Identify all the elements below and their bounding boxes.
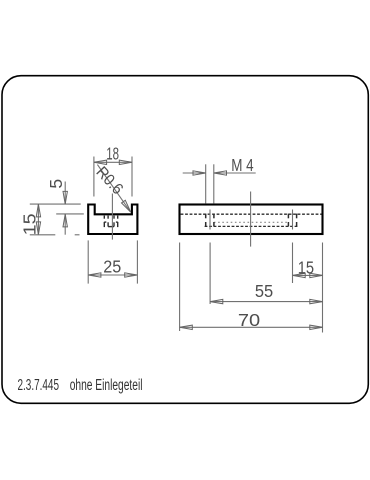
dimension 5 line — [64, 182, 66, 235]
dimension 70 extension line (left edge) — [179, 243, 181, 332]
dimension 5 extension lines — [30, 204, 84, 214]
dimension 18 extension lines — [94, 157, 132, 197]
right view hidden slot line (grey) — [214, 221, 289, 223]
dimension 55 extension line (left hole) — [209, 243, 211, 305]
leader R0.6 line — [97, 165, 130, 212]
dimension 15 bottom extension line — [30, 234, 80, 236]
dimension 18 arrows — [94, 160, 132, 164]
svg-text:ohne Einlegeteil: ohne Einlegeteil — [70, 377, 143, 394]
left view vertical centerline — [111, 194, 113, 240]
left view part outline (U-channel cross-section) — [88, 205, 137, 235]
right hole hidden walls — [288, 214, 296, 227]
dimension 25 extension lines — [88, 240, 137, 283]
svg-text:M 4: M 4 — [231, 155, 254, 175]
right view hidden groove bottom line — [181, 213, 322, 215]
dimension 55 arrows — [210, 299, 322, 303]
dimension 25 line — [88, 274, 137, 276]
svg-text:25: 25 — [103, 257, 121, 277]
svg-text:15: 15 — [19, 213, 39, 235]
dimension 5 arrows — [63, 191, 67, 227]
dimension 15 line (left view) — [37, 204, 39, 234]
M4 arrows — [193, 171, 227, 175]
dimension 15 arrows (left view) — [36, 204, 40, 234]
left view hidden tapped-hole lines — [104, 216, 117, 228]
leader R0.6 arrowhead — [122, 200, 131, 212]
dimension 15 extension lines (right) — [293, 243, 323, 333]
svg-text:15: 15 — [298, 258, 314, 278]
svg-text:18: 18 — [106, 144, 119, 164]
M4 dimension line with leader — [183, 172, 256, 174]
left hole centerline — [209, 210, 211, 230]
right view part outline — [180, 205, 323, 235]
M4 extension lines — [206, 164, 214, 203]
svg-text:5: 5 — [46, 179, 66, 189]
right view vertical centerline — [250, 192, 252, 247]
dimension 15 arrows (right) — [293, 273, 323, 277]
left hole hidden walls — [206, 214, 214, 227]
dimension 25 arrows — [88, 273, 137, 277]
svg-text:55: 55 — [255, 281, 273, 301]
dimension 70 arrows — [180, 325, 323, 329]
right hole centerline — [292, 210, 294, 230]
dimension 70 line — [180, 326, 323, 328]
dimension 55 line — [210, 301, 322, 303]
right view hidden hole bottom line — [205, 225, 299, 227]
svg-text:2.3.7.445: 2.3.7.445 — [18, 377, 60, 394]
dimension 15 line (right) — [293, 274, 323, 276]
svg-text:70: 70 — [238, 310, 261, 330]
dimension 18 line — [94, 161, 132, 163]
